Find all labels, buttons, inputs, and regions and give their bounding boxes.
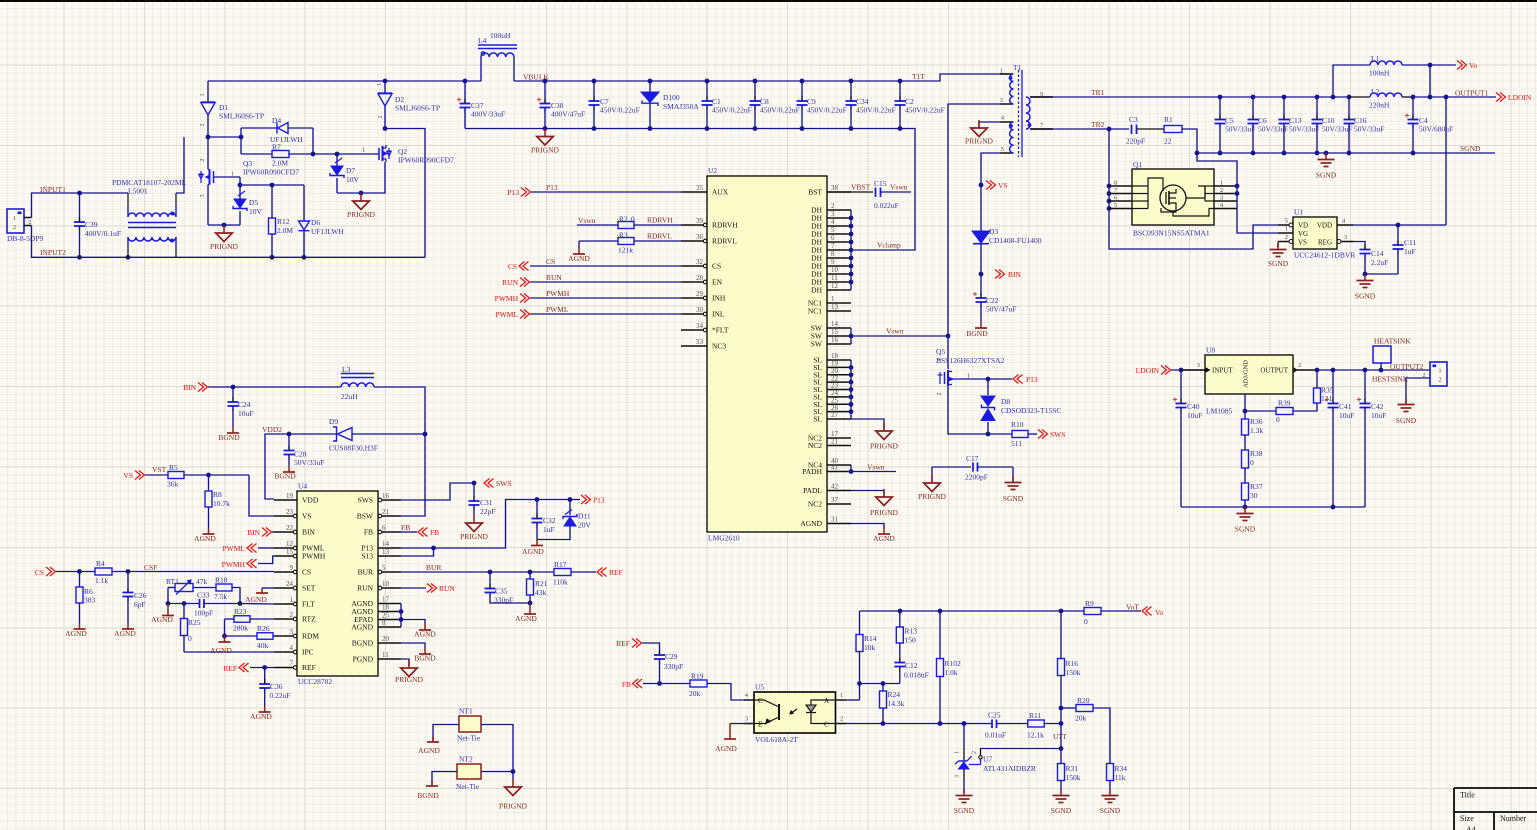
svg-text:R4: R4 <box>96 559 105 568</box>
capacitor C7 450V/0.22uF <box>589 81 640 129</box>
svg-text:C25: C25 <box>988 711 1001 720</box>
svg-text:Q5: Q5 <box>936 347 945 356</box>
wire VS to BIN <box>980 274 982 297</box>
svg-text:5: 5 <box>1001 146 1004 153</box>
svg-text:23: 23 <box>286 508 294 516</box>
ground AGND (SET) <box>245 588 274 604</box>
port CS (left) <box>35 567 56 577</box>
wire P13 net <box>401 500 580 549</box>
svg-text:VDD2: VDD2 <box>262 425 282 434</box>
svg-text:47k: 47k <box>196 577 208 586</box>
svg-text:0.018uF: 0.018uF <box>904 671 929 680</box>
resistor R6 383 <box>76 572 96 624</box>
svg-text:RDRVH: RDRVH <box>647 216 673 225</box>
svg-text:NC1: NC1 <box>808 307 822 316</box>
wire opto emitter row <box>846 723 992 725</box>
svg-text:L2: L2 <box>1371 87 1380 96</box>
ground BGND (C28) <box>274 466 296 481</box>
wire LDOIN <box>1171 369 1205 371</box>
svg-text:PADH: PADH <box>802 467 822 476</box>
junction C36 top <box>262 665 267 670</box>
ground SGND (OUTPUT2) <box>1396 398 1417 425</box>
svg-text:FB: FB <box>430 528 439 537</box>
svg-text:13: 13 <box>831 303 839 311</box>
power ground PRIGND (bulk caps) <box>531 129 560 155</box>
ground SGND (output caps) <box>1316 153 1337 180</box>
svg-text:C42: C42 <box>1371 402 1384 411</box>
wire Vswn from SW <box>851 335 948 337</box>
wire L3 to BSW <box>374 387 425 516</box>
junction SL bus <box>849 380 854 385</box>
net-tie NT2 <box>456 755 481 792</box>
wire REF to C29 <box>642 643 660 654</box>
junction Q1 left pin <box>1107 199 1112 204</box>
wire clamp node vertical <box>240 128 242 154</box>
svg-text:PWMH: PWMH <box>222 560 246 569</box>
resistor R35 121 <box>1314 370 1334 403</box>
junction Q1 left pin <box>1107 191 1112 196</box>
capacitor C1 450V/0.22uF <box>702 81 752 129</box>
wire VDD2 to VDD <box>265 434 289 499</box>
svg-text:IPW60R090CFD7: IPW60R090CFD7 <box>398 156 454 165</box>
svg-text:Vswn: Vswn <box>886 327 904 336</box>
svg-text:BSW: BSW <box>357 512 374 521</box>
wire clamp right vertical <box>312 128 314 154</box>
op-amp U8 LM1085 regulator <box>1181 346 1317 416</box>
svg-text:31: 31 <box>831 516 839 524</box>
svg-text:R36: R36 <box>1250 417 1263 426</box>
junction VDD2/D9 <box>423 432 428 437</box>
junction output node <box>1331 368 1336 373</box>
diode D1 SMLJ60S6-TP <box>200 81 264 137</box>
svg-text:121k: 121k <box>618 246 633 255</box>
wire HV top rail left <box>208 80 481 82</box>
common-mode choke L5001 PDMCAT18107-202ML <box>112 137 187 257</box>
svg-text:24: 24 <box>286 580 294 588</box>
svg-text:HESTSINK: HESTSINK <box>1372 375 1409 384</box>
capacitor C15 0.022uF (BST) <box>827 179 911 210</box>
svg-text:2: 2 <box>28 219 31 226</box>
svg-text:8: 8 <box>831 250 835 258</box>
junction D11 top <box>568 497 573 502</box>
junction R20 left <box>1059 706 1064 711</box>
svg-text:110k: 110k <box>553 578 568 587</box>
svg-text:40k: 40k <box>257 641 269 650</box>
svg-text:38: 38 <box>831 184 839 192</box>
svg-text:PWMH: PWMH <box>546 289 570 298</box>
capacitor C38 400V/47uF <box>537 81 585 129</box>
svg-text:R31: R31 <box>1066 764 1079 773</box>
wire Q5 source to SWS <box>948 386 1012 434</box>
junction choke bottom lead <box>126 255 131 260</box>
resistor R1 22 <box>1164 115 1182 146</box>
resistor R13 150 <box>896 611 917 662</box>
svg-text:U2: U2 <box>708 166 717 175</box>
wire PWML pin <box>258 547 274 549</box>
diode D3 CD1408-FU1400 <box>972 185 1042 274</box>
svg-text:FLT: FLT <box>302 600 315 609</box>
port VS <box>986 181 1008 191</box>
wire Q3 gate node <box>239 177 241 185</box>
wire HV top rail right <box>514 74 1008 81</box>
junction DH bus <box>849 256 854 261</box>
svg-text:Vo: Vo <box>1155 608 1163 617</box>
svg-text:1: 1 <box>955 751 961 754</box>
resistor R14 10k <box>856 611 877 700</box>
port P13 (Q5) <box>1013 375 1038 385</box>
svg-text:BGND: BGND <box>966 329 988 338</box>
svg-text:32: 32 <box>696 258 704 266</box>
svg-text:D6: D6 <box>311 218 320 227</box>
svg-text:T1T: T1T <box>912 72 925 81</box>
svg-text:BGND: BGND <box>274 472 296 481</box>
junction output rail <box>1428 95 1433 100</box>
wire NC4-PADH tie <box>850 465 852 472</box>
junction SGND rail <box>1347 151 1352 156</box>
junction FLT node <box>238 601 243 606</box>
capacitor C28 50V/33uF <box>284 434 325 467</box>
svg-text:6pF: 6pF <box>134 600 146 609</box>
svg-text:TR2: TR2 <box>1091 120 1105 129</box>
capacitor C5 50V/33uF <box>1215 97 1256 153</box>
resistor R102 1.0k <box>937 611 962 724</box>
svg-text:14: 14 <box>382 540 390 548</box>
wire AUX <box>531 191 681 193</box>
port REF (R17) <box>597 568 623 578</box>
svg-text:VS: VS <box>302 512 312 521</box>
svg-text:33: 33 <box>696 338 704 346</box>
junction DH bus <box>849 232 854 237</box>
svg-text:37: 37 <box>831 496 839 504</box>
wire FLT <box>240 603 274 606</box>
svg-text:UCC24612-1DBVR: UCC24612-1DBVR <box>1294 251 1355 260</box>
wire PWMH pin <box>258 556 274 564</box>
svg-text:C36: C36 <box>270 682 283 691</box>
svg-text:C26: C26 <box>134 591 147 600</box>
svg-text:1: 1 <box>1285 226 1288 233</box>
svg-text:1: 1 <box>840 692 843 699</box>
resistor R12 2.0M <box>269 185 294 257</box>
svg-text:0: 0 <box>1250 458 1254 467</box>
junction C1 top <box>705 79 710 84</box>
svg-text:AGND: AGND <box>568 254 590 263</box>
svg-text:8: 8 <box>1114 180 1117 187</box>
capacitor C10 50V/33uF <box>1312 97 1353 153</box>
svg-text:UCC28782: UCC28782 <box>298 677 332 686</box>
power ground PRIGND (NT2) <box>499 772 528 811</box>
svg-text:50V/47uF: 50V/47uF <box>986 305 1016 314</box>
junction C2 top <box>898 79 903 84</box>
svg-text:IPC: IPC <box>302 648 314 657</box>
port RUN to EN <box>502 278 529 288</box>
svg-text:BGND: BGND <box>417 791 439 800</box>
ground AGND (R8) <box>194 528 216 543</box>
power ground PRIGND (PADL) <box>870 489 899 517</box>
svg-text:AGND: AGND <box>114 629 136 638</box>
svg-text:1uF: 1uF <box>1404 247 1416 256</box>
wire S13 tie <box>401 548 434 556</box>
svg-text:NC2: NC2 <box>808 441 822 450</box>
svg-text:AGND: AGND <box>210 646 232 655</box>
svg-text:VS: VS <box>998 181 1008 190</box>
wire INL <box>530 313 681 315</box>
junction C34 top <box>849 79 854 84</box>
junction SL bus <box>849 395 854 400</box>
wire VST to VS pin <box>249 475 274 516</box>
svg-text:L4: L4 <box>478 36 487 45</box>
TVS diode D8 CDSOD323-T15SC <box>981 379 1061 434</box>
svg-text:RDM: RDM <box>302 632 319 641</box>
resistor R21 43k <box>527 572 548 603</box>
svg-text:AGND: AGND <box>515 614 537 623</box>
svg-text:450V/0.22uF: 450V/0.22uF <box>905 106 945 115</box>
svg-text:CS: CS <box>35 568 44 577</box>
svg-text:SGND: SGND <box>1316 171 1337 180</box>
svg-text:R11: R11 <box>1029 711 1041 720</box>
capacitor C26 6pF <box>123 572 147 624</box>
ground AGND (R3) <box>568 241 590 263</box>
wire FB pin <box>401 531 417 533</box>
svg-text:U8: U8 <box>1206 346 1215 355</box>
ground SGND (R34) <box>1100 789 1121 815</box>
wire INH <box>530 297 681 299</box>
junction D8 top <box>986 377 991 382</box>
wire TR2 <box>1031 128 1129 130</box>
junction R35 top <box>1315 368 1320 373</box>
ground SGND (LDO) <box>1235 507 1256 534</box>
svg-text:RUN: RUN <box>357 584 373 593</box>
power ground PRIGND (Q3 source) <box>210 225 239 251</box>
svg-text:RDRVL: RDRVL <box>712 237 737 246</box>
svg-text:Title: Title <box>1460 791 1475 800</box>
svg-text:SWS: SWS <box>358 496 373 505</box>
svg-text:12.1k: 12.1k <box>1027 731 1044 740</box>
capacitor C12 0.018uF <box>894 658 928 684</box>
svg-text:2.2uF: 2.2uF <box>1371 258 1388 267</box>
svg-text:PRIGND: PRIGND <box>870 508 899 517</box>
svg-text:L3: L3 <box>342 365 351 374</box>
svg-text:11k: 11k <box>1115 773 1126 782</box>
shunt regulator U7 ATL431AIDBZR <box>955 724 1036 794</box>
svg-text:1: 1 <box>290 596 294 604</box>
junction C35 top <box>488 570 493 575</box>
svg-text:BIN: BIN <box>183 383 197 392</box>
svg-text:3: 3 <box>937 359 943 362</box>
svg-text:1: 1 <box>231 171 234 178</box>
svg-text:P13: P13 <box>546 183 558 192</box>
svg-text:2.0M: 2.0M <box>277 226 293 235</box>
svg-text:PRIGND: PRIGND <box>395 675 424 684</box>
junction Q1 drain pin <box>1235 184 1240 189</box>
svg-text:R1: R1 <box>1164 115 1173 124</box>
svg-text:NT2: NT2 <box>459 755 473 764</box>
ground AGND (R21) <box>515 603 537 623</box>
junction D6 bottom <box>302 255 307 260</box>
capacitor C13 50V/33uF <box>1279 97 1320 153</box>
svg-text:SGND: SGND <box>1355 292 1376 301</box>
svg-text:36k: 36k <box>167 480 179 489</box>
svg-text:AGND: AGND <box>65 629 87 638</box>
power ground PRIGND (C31) <box>460 515 489 541</box>
wire U1 VDD <box>1353 224 1446 226</box>
capacitor C42 10uF <box>1357 370 1386 507</box>
svg-text:2: 2 <box>1220 187 1223 194</box>
svg-text:U7: U7 <box>983 755 992 764</box>
svg-text:Vclamp: Vclamp <box>877 241 901 250</box>
svg-text:C11: C11 <box>1404 238 1416 247</box>
svg-text:7.5k: 7.5k <box>214 592 227 601</box>
svg-text:1: 1 <box>377 83 383 86</box>
svg-text:P13: P13 <box>1026 375 1038 384</box>
svg-text:9: 9 <box>290 564 294 572</box>
svg-text:1: 1 <box>1000 68 1003 75</box>
svg-text:CSF: CSF <box>144 563 157 572</box>
connector J1 DB-8-5DP9 <box>7 209 44 243</box>
svg-text:ADJ/GND: ADJ/GND <box>1243 360 1250 388</box>
svg-text:42: 42 <box>831 483 839 491</box>
junction C29 bottom <box>657 681 662 686</box>
svg-text:AGND: AGND <box>151 615 173 624</box>
svg-text:R16: R16 <box>1066 659 1079 668</box>
svg-text:1.0k: 1.0k <box>945 668 958 677</box>
svg-text:R2: R2 <box>619 215 628 224</box>
wire U7 ref row <box>980 748 1061 750</box>
svg-text:0: 0 <box>1084 617 1088 626</box>
svg-text:IPW60R090CFD7: IPW60R090CFD7 <box>243 168 299 177</box>
junction Q1 left pin <box>1107 206 1112 211</box>
wire RT1 left leg <box>167 588 169 604</box>
resistor R16 150k <box>1058 611 1081 708</box>
capacitor C37 400V/33uF <box>457 81 505 129</box>
ground AGND (RT1) <box>151 604 174 625</box>
svg-text:LDOIN: LDOIN <box>1508 93 1532 102</box>
wire T1 pin3 to SW node <box>948 104 1000 369</box>
svg-text:CS: CS <box>712 262 721 271</box>
wire CS row <box>56 571 95 573</box>
svg-text:7: 7 <box>290 660 294 668</box>
svg-text:SMLJ60S6-TP: SMLJ60S6-TP <box>395 104 440 113</box>
svg-text:16: 16 <box>382 492 390 500</box>
port VS (divider) <box>123 471 144 481</box>
svg-text:INL: INL <box>712 310 725 319</box>
capacitor C22 50V/47uF <box>973 292 1016 322</box>
svg-text:PRIGND: PRIGND <box>499 802 528 811</box>
zener D5 10V <box>233 185 263 225</box>
svg-text:7: 7 <box>831 242 835 250</box>
svg-text:220pF: 220pF <box>1126 137 1145 146</box>
svg-text:VG: VG <box>1298 230 1308 238</box>
junction SGND rail <box>1315 151 1320 156</box>
svg-text:RUN: RUN <box>439 584 455 593</box>
capacitor C25 0.01uF <box>985 711 1028 740</box>
wire BIN pin <box>272 531 274 533</box>
svg-text:400V/0.1uF: 400V/0.1uF <box>85 229 121 238</box>
svg-text:0.22uF: 0.22uF <box>270 691 291 700</box>
junction R21 top <box>528 570 533 575</box>
svg-text:20V: 20V <box>578 521 592 530</box>
svg-text:400V/47uF: 400V/47uF <box>551 110 585 119</box>
junction SL bus <box>849 387 854 392</box>
transistor Q1 BSC093N15NS5ATMA1 <box>1109 160 1237 238</box>
junction D100 bottom <box>648 126 653 131</box>
svg-text:RDRVL: RDRVL <box>647 232 672 241</box>
junction RT1/AGND <box>166 601 171 606</box>
junction output node <box>1363 368 1368 373</box>
port BIN <box>995 270 1022 280</box>
junction C40 top <box>1179 368 1184 373</box>
power ground PRIGND (Q2 source) <box>347 193 376 219</box>
svg-text:280k: 280k <box>233 624 248 633</box>
junction output node <box>1379 368 1384 373</box>
resistor R3 121k <box>579 231 681 255</box>
resistor R24 14.3k <box>880 684 905 724</box>
junction VS <box>979 183 984 188</box>
capacitor C14 2.2uF <box>1353 242 1388 275</box>
svg-text:VoT: VoT <box>1126 603 1139 612</box>
junction Vswn/T1 <box>946 334 951 339</box>
svg-text:R38: R38 <box>1250 449 1263 458</box>
svg-text:T1: T1 <box>1013 63 1022 72</box>
resistor R34 11k <box>1107 764 1128 791</box>
resistor R39 0 <box>1245 399 1317 425</box>
svg-text:330pF: 330pF <box>664 662 683 671</box>
junction C13 top <box>1282 95 1287 100</box>
svg-text:PRIGND: PRIGND <box>210 242 239 251</box>
svg-text:1: 1 <box>1438 368 1441 375</box>
port LDOIN (output) <box>1496 93 1532 103</box>
svg-text:INPUT2: INPUT2 <box>40 248 66 257</box>
svg-text:R20: R20 <box>1077 696 1090 705</box>
svg-text:R37: R37 <box>1250 482 1263 491</box>
junction C14 bottom <box>1363 272 1368 277</box>
svg-text:AGND: AGND <box>418 746 440 755</box>
capacitor C2 450V/0.22uF <box>895 81 945 129</box>
capacitor C9 450V/0.22uF <box>797 81 847 129</box>
svg-text:SMLJ60S6-TP: SMLJ60S6-TP <box>219 112 264 121</box>
resistor R9 0 <box>1084 599 1141 626</box>
wire D2 to right leg <box>385 129 425 258</box>
port PWMH (U4) <box>222 559 257 569</box>
svg-text:34: 34 <box>696 322 704 330</box>
svg-text:0.01uF: 0.01uF <box>985 731 1006 740</box>
svg-text:PWMH: PWMH <box>302 552 326 561</box>
wire DH bus <box>850 210 852 290</box>
junction NT2/PRIGND <box>511 769 516 774</box>
svg-text:0.022uF: 0.022uF <box>874 201 899 210</box>
resistor R11 12.1k <box>1027 711 1061 740</box>
svg-text:VDD: VDD <box>1317 222 1332 230</box>
junction SGND rail <box>1411 151 1416 156</box>
svg-text:R19: R19 <box>691 672 704 681</box>
svg-text:1: 1 <box>200 94 206 97</box>
svg-text:TR1: TR1 <box>1091 88 1105 97</box>
svg-text:U4: U4 <box>298 482 307 491</box>
junction R6 top <box>77 569 82 574</box>
svg-text:FB: FB <box>364 528 373 537</box>
svg-text:R8: R8 <box>213 490 222 499</box>
svg-text:22pF: 22pF <box>480 507 495 516</box>
svg-text:OUTPUT1: OUTPUT1 <box>1455 89 1489 98</box>
resistor R31 150k <box>1058 764 1081 791</box>
resistor R36 1.3k <box>1242 411 1264 435</box>
junction C24 top <box>231 385 236 390</box>
net-tie NT1 <box>457 707 481 743</box>
power ground PRIGND (SL) <box>870 423 899 451</box>
capacitor C32 1uF <box>532 500 556 540</box>
svg-text:BIN: BIN <box>1008 270 1022 279</box>
wire TR2 down Q1 <box>1109 129 1278 249</box>
junction DH bus <box>849 224 854 229</box>
